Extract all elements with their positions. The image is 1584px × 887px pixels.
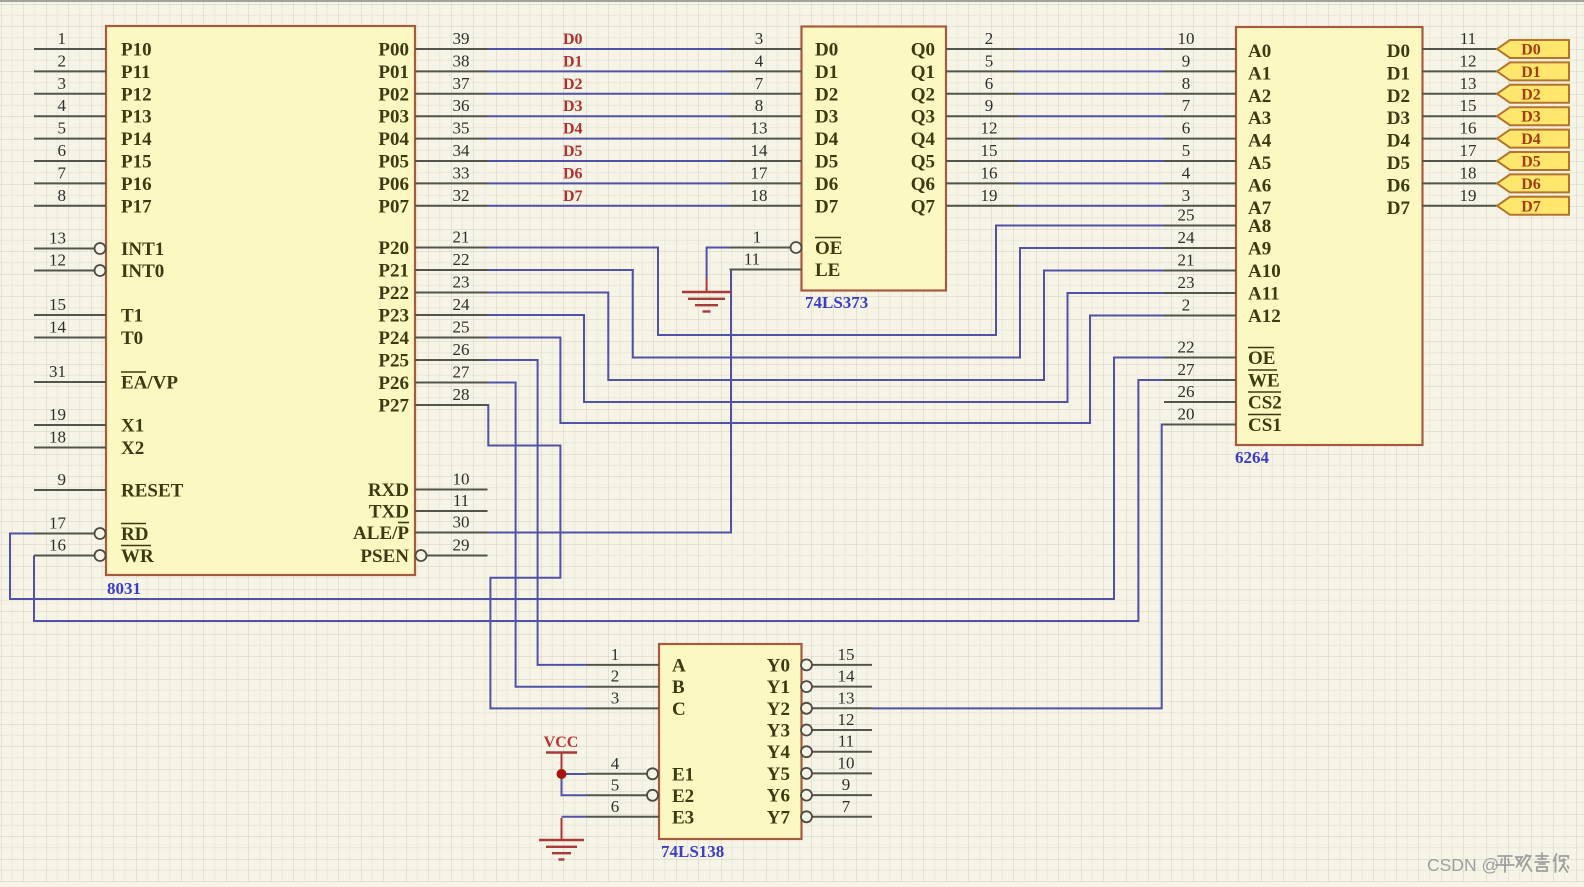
U1 pin 39 (P00) right stub <box>415 29 488 49</box>
svg-text:16: 16 <box>1460 119 1477 138</box>
U4 pin name E2 <box>672 786 694 807</box>
svg-text:8: 8 <box>58 186 67 205</box>
U1 pin name T0 <box>121 328 143 349</box>
U4 pin 14 (Y1) stub <box>801 667 872 693</box>
svg-text:14: 14 <box>49 318 67 337</box>
U3 pin name D2 <box>1387 86 1410 107</box>
wire P27 to 74LS138 C <box>488 405 588 708</box>
U3 pin 22 (OE) stub <box>1164 338 1236 358</box>
wire ALE to 74LS373 LE <box>488 270 732 533</box>
svg-text:22: 22 <box>453 250 470 269</box>
svg-text:RXD: RXD <box>368 480 409 501</box>
svg-text:39: 39 <box>453 29 470 48</box>
svg-text:A10: A10 <box>1248 261 1281 282</box>
wire 74LS373 Q3 to 6264 A3 <box>1018 115 1164 117</box>
svg-text:7: 7 <box>1182 96 1191 115</box>
svg-text:19: 19 <box>981 186 998 205</box>
U1 pin 9 (RESET) left stub <box>34 470 106 490</box>
U1 pin name P04 <box>378 129 409 150</box>
svg-text:P06: P06 <box>378 174 409 195</box>
U2 pin 18 (D7) stub <box>730 186 802 206</box>
U1 pin name P01 <box>378 62 409 83</box>
svg-text:Y4: Y4 <box>767 742 791 763</box>
svg-text:24: 24 <box>1178 228 1196 247</box>
U2 pin 15 (Q5) stub <box>946 141 1018 161</box>
svg-text:25: 25 <box>1178 206 1195 225</box>
svg-text:6264: 6264 <box>1235 448 1270 467</box>
U1 pin name RXD <box>368 480 409 501</box>
svg-text:1: 1 <box>58 29 67 48</box>
U1 pin 6 (P15) left stub <box>34 141 106 161</box>
svg-text:P01: P01 <box>378 62 409 83</box>
U2 pin 2 (Q0) stub <box>946 29 1018 49</box>
wire 74LS373 Q2 to 6264 A2 <box>1018 93 1164 95</box>
svg-text:9: 9 <box>58 470 67 489</box>
U3 pin name CS2 <box>1248 392 1282 414</box>
svg-text:4: 4 <box>1182 163 1191 182</box>
svg-text:A0: A0 <box>1248 41 1271 62</box>
svg-text:12: 12 <box>981 119 998 138</box>
svg-text:Y5: Y5 <box>767 764 790 785</box>
U1 pin 28 (P27) right stub <box>415 385 488 405</box>
svg-text:15: 15 <box>1460 96 1477 115</box>
svg-text:24: 24 <box>453 295 471 314</box>
U3 pin 6 (A4) stub <box>1164 119 1236 139</box>
U1 pin name P24 <box>378 328 409 349</box>
svg-text:30: 30 <box>453 513 470 532</box>
svg-text:P25: P25 <box>378 351 409 372</box>
svg-text:A1: A1 <box>1248 63 1271 84</box>
svg-text:Q4: Q4 <box>911 129 936 150</box>
U3 pin name A2 <box>1248 86 1271 107</box>
svg-text:26: 26 <box>1178 382 1195 401</box>
svg-text:74LS138: 74LS138 <box>661 842 724 861</box>
U4 pin 9 (Y6) stub <box>801 775 872 801</box>
U1 pin 18 (X2) left stub <box>34 428 106 448</box>
svg-text:P14: P14 <box>121 129 152 150</box>
U1 pin 31 (EA/VP) left stub <box>34 362 106 382</box>
svg-text:C: C <box>672 699 686 720</box>
port D6 <box>1497 174 1569 193</box>
wire 74LS138 Y2 to 6264 CS1 <box>872 425 1164 709</box>
wire 74LS373 Q4 to 6264 A4 <box>1018 138 1164 140</box>
svg-text:11: 11 <box>1460 29 1476 48</box>
U4 pin 11 (Y4) stub <box>801 732 872 758</box>
svg-text:D2: D2 <box>563 76 583 93</box>
svg-text:D5: D5 <box>815 152 838 173</box>
svg-text:D1: D1 <box>563 53 583 70</box>
U3 pin 21 (A10) stub <box>1164 251 1236 271</box>
U4 pin name B <box>672 677 685 698</box>
U2 pin 11 (LE) stub <box>730 250 802 270</box>
svg-text:16: 16 <box>49 536 66 555</box>
U2 pin name D4 <box>815 129 839 150</box>
svg-text:TXD: TXD <box>369 502 409 523</box>
U2 pin 14 (D5) stub <box>730 141 802 161</box>
U1 pin 8 (P17) left stub <box>34 186 106 206</box>
U2 pin name D3 <box>815 107 838 128</box>
svg-text:D4: D4 <box>1521 131 1541 148</box>
svg-text:A8: A8 <box>1248 216 1271 237</box>
wire P24 to 6264 A12 <box>488 316 1165 424</box>
svg-text:P15: P15 <box>121 152 152 173</box>
svg-text:2: 2 <box>985 29 994 48</box>
IC U1 8031 body <box>106 26 415 575</box>
svg-text:23: 23 <box>1178 273 1195 292</box>
port D7 <box>1497 197 1569 216</box>
U3 pin name OE <box>1248 348 1275 370</box>
U4 pin name Y5 <box>767 764 790 785</box>
svg-text:34: 34 <box>453 141 471 160</box>
svg-text:D7: D7 <box>563 188 583 205</box>
U2 pin name Q6 <box>911 174 935 195</box>
svg-text:12: 12 <box>1460 51 1477 70</box>
svg-text:Y1: Y1 <box>767 677 790 698</box>
wire P23 to 6264 A11 <box>488 293 1165 402</box>
svg-text:3: 3 <box>611 688 620 707</box>
svg-text:A: A <box>672 655 686 676</box>
U2 pin 19 (Q7) stub <box>946 186 1018 206</box>
svg-text:D4: D4 <box>815 129 839 150</box>
svg-text:27: 27 <box>453 363 471 382</box>
U4 pin name C <box>672 699 686 720</box>
svg-text:Y7: Y7 <box>767 807 791 828</box>
IC U4 74LS138 body <box>659 644 802 839</box>
U2 pin 17 (D6) stub <box>730 163 802 183</box>
wire 74LS373 OE to ground <box>707 248 730 279</box>
U1 pin name P02 <box>378 84 409 105</box>
svg-text:Y0: Y0 <box>767 655 790 676</box>
U4 pin name Y3 <box>767 721 790 742</box>
svg-text:9: 9 <box>985 96 994 115</box>
U3 pin 20 (CS1) stub <box>1164 405 1236 425</box>
U1 pin name P07 <box>378 196 409 217</box>
svg-text:A9: A9 <box>1248 239 1271 260</box>
svg-text:11: 11 <box>453 491 469 510</box>
svg-text:17: 17 <box>49 514 67 533</box>
svg-text:OE: OE <box>1248 348 1275 369</box>
U1 pin 23 (P22) right stub <box>415 273 488 293</box>
svg-text:Q1: Q1 <box>911 62 935 83</box>
svg-text:RD: RD <box>121 524 148 545</box>
svg-text:X1: X1 <box>121 416 144 437</box>
wire 74LS373 Q0 to 6264 A0 <box>1018 48 1164 50</box>
svg-text:2: 2 <box>1182 296 1191 315</box>
U3 pin 4 (A6) stub <box>1164 163 1236 183</box>
svg-text:14: 14 <box>838 667 856 686</box>
wire P22 to 6264 A10 <box>488 271 1165 381</box>
svg-text:6: 6 <box>985 74 994 93</box>
U2 pin name D0 <box>815 40 838 61</box>
U2 pin name D1 <box>815 62 838 83</box>
U1 pin name P27 <box>378 396 409 417</box>
U3 pin 3 (A7) stub <box>1164 186 1236 206</box>
svg-text:D5: D5 <box>1387 153 1410 174</box>
IC U3 6264 designator label <box>1235 448 1270 467</box>
U3 pin name A3 <box>1248 108 1271 129</box>
U1 pin 5 (P14) left stub <box>34 119 106 139</box>
U4 pin 7 (Y7) stub <box>801 797 872 823</box>
U4 pin name Y7 <box>767 807 791 828</box>
svg-text:29: 29 <box>453 536 470 555</box>
svg-text:E3: E3 <box>672 807 694 828</box>
U1 pin name T1 <box>121 306 143 327</box>
svg-text:Y6: Y6 <box>767 786 790 807</box>
U4 pin 6 (E3) stub <box>587 797 659 817</box>
U1 pin name P23 <box>378 306 409 327</box>
U3 pin 15 (D3) stub <box>1422 96 1497 116</box>
U2 pin name Q1 <box>911 62 935 83</box>
U3 pin name D3 <box>1387 108 1410 129</box>
U4 pin 3 (C) stub <box>587 688 659 708</box>
U3 pin 13 (D2) stub <box>1422 74 1497 94</box>
svg-text:11: 11 <box>744 250 760 269</box>
svg-text:5: 5 <box>985 51 994 70</box>
wire RD to 6264 OE <box>10 358 1164 600</box>
U3 pin name A1 <box>1248 63 1271 84</box>
svg-text:D6: D6 <box>815 174 838 195</box>
U3 pin 26 (CS2) stub <box>1164 382 1236 402</box>
U2 pin name OE <box>815 238 842 260</box>
svg-text:15: 15 <box>981 141 998 160</box>
U4 pin 4 (E1) stub <box>587 754 658 780</box>
U2 pin 3 (D0) stub <box>730 29 802 49</box>
svg-text:11: 11 <box>838 732 854 751</box>
svg-text:35: 35 <box>453 119 470 138</box>
svg-text:Y3: Y3 <box>767 721 790 742</box>
U3 pin name CS1 <box>1248 415 1282 437</box>
svg-text:Q3: Q3 <box>911 107 935 128</box>
svg-text:4: 4 <box>611 754 620 773</box>
svg-text:D7: D7 <box>815 196 839 217</box>
svg-text:X2: X2 <box>121 438 144 459</box>
svg-text:D4: D4 <box>1387 131 1411 152</box>
IC U1 8031 designator label <box>107 579 141 598</box>
svg-text:5: 5 <box>58 119 67 138</box>
U1 pin name P20 <box>378 238 409 259</box>
svg-text:5: 5 <box>611 775 620 794</box>
svg-text:T1: T1 <box>121 306 143 327</box>
svg-text:Q6: Q6 <box>911 174 935 195</box>
U1 pin name ALE/P <box>353 523 409 545</box>
U2 pin name D5 <box>815 152 838 173</box>
wire 74LS373 Q5 to 6264 A5 <box>1018 160 1164 162</box>
svg-text:WE: WE <box>1248 371 1280 392</box>
U1 pin name P05 <box>378 152 409 173</box>
svg-text:3: 3 <box>1182 186 1191 205</box>
svg-text:E2: E2 <box>672 786 694 807</box>
svg-text:38: 38 <box>453 51 470 70</box>
svg-text:17: 17 <box>1460 141 1478 160</box>
U4 pin 5 (E2) stub <box>587 775 658 801</box>
U1 pin name PSEN <box>360 546 409 567</box>
U1 pin 21 (P20) right stub <box>415 228 488 248</box>
U1 pin name P16 <box>121 174 152 195</box>
U1 pin name P21 <box>378 261 409 282</box>
U3 pin name D5 <box>1387 153 1410 174</box>
svg-text:20: 20 <box>1178 405 1195 424</box>
U1 pin name RESET <box>121 481 184 502</box>
svg-text:4: 4 <box>755 51 764 70</box>
U1 pin 32 (P07) right stub <box>415 186 488 206</box>
svg-text:19: 19 <box>1460 186 1477 205</box>
svg-text:LE: LE <box>815 260 840 281</box>
svg-text:8: 8 <box>1182 74 1191 93</box>
U3 pin name A7 <box>1248 198 1272 219</box>
svg-text:CSDN @: CSDN @ <box>1427 855 1499 875</box>
svg-text:P17: P17 <box>121 196 152 217</box>
U1 pin 12 (INT0) left stub <box>34 251 106 277</box>
U1 pin name INT1 <box>121 239 164 260</box>
svg-text:D5: D5 <box>563 143 583 160</box>
U4 pin name Y6 <box>767 786 790 807</box>
svg-text:EA/VP: EA/VP <box>121 373 178 394</box>
U2 pin 9 (Q3) stub <box>946 96 1018 116</box>
wire VCC to E1 <box>562 773 588 775</box>
svg-text:P21: P21 <box>378 261 409 282</box>
U4 pin 10 (Y5) stub <box>801 753 872 779</box>
port D2 <box>1497 85 1569 104</box>
svg-text:E1: E1 <box>672 764 694 785</box>
U2 pin name Q2 <box>911 84 935 105</box>
svg-text:D7: D7 <box>1521 198 1541 215</box>
U4 pin name Y0 <box>767 655 790 676</box>
power port VCC <box>544 734 579 779</box>
U2 pin name D6 <box>815 174 838 195</box>
svg-text:P05: P05 <box>378 152 409 173</box>
U3 pin name A12 <box>1248 306 1281 327</box>
svg-text:D0: D0 <box>815 40 838 61</box>
top border of screenshot <box>0 0 1584 2</box>
svg-text:D7: D7 <box>1387 198 1411 219</box>
svg-text:ALE/P: ALE/P <box>353 523 409 544</box>
svg-text:D5: D5 <box>1521 154 1541 171</box>
U2 pin name LE <box>815 260 840 281</box>
U1 pin 7 (P16) left stub <box>34 163 106 183</box>
U2 pin name Q4 <box>911 129 936 150</box>
U3 pin name D1 <box>1387 63 1410 84</box>
svg-text:12: 12 <box>49 251 66 270</box>
svg-text:A6: A6 <box>1248 175 1271 196</box>
wire 74LS373 Q7 to 6264 A7 <box>1018 205 1164 207</box>
wire P05 to 74LS373 D5 (net D5) <box>488 160 730 162</box>
U1 pin name P17 <box>121 196 152 217</box>
U3 pin 25 (A8) stub <box>1164 206 1236 226</box>
U1 pin 3 (P12) left stub <box>34 74 106 94</box>
svg-text:P24: P24 <box>378 328 409 349</box>
U3 pin name A0 <box>1248 41 1271 62</box>
U4 pin name Y2 <box>767 699 790 720</box>
svg-text:10: 10 <box>838 753 855 772</box>
svg-text:P03: P03 <box>378 107 409 128</box>
svg-text:32: 32 <box>453 186 470 205</box>
wire P21 to 6264 A9 <box>488 248 1165 358</box>
svg-text:21: 21 <box>1178 251 1195 270</box>
svg-text:26: 26 <box>453 340 470 359</box>
svg-text:13: 13 <box>751 119 768 138</box>
svg-text:A11: A11 <box>1248 284 1280 305</box>
svg-text:33: 33 <box>453 163 470 182</box>
U1 pin 17 (RD) left stub <box>34 514 106 540</box>
U1 pin name P14 <box>121 129 152 150</box>
svg-text:INT0: INT0 <box>121 261 164 282</box>
wire 74LS373 Q6 to 6264 A6 <box>1018 182 1164 184</box>
svg-text:3: 3 <box>58 74 67 93</box>
U2 pin 5 (Q1) stub <box>946 51 1018 71</box>
svg-text:13: 13 <box>1460 74 1477 93</box>
svg-text:A4: A4 <box>1248 131 1272 152</box>
U1 pin 13 (INT1) left stub <box>34 229 106 255</box>
svg-text:14: 14 <box>751 141 769 160</box>
svg-text:A2: A2 <box>1248 86 1271 107</box>
svg-text:Q5: Q5 <box>911 152 935 173</box>
port D3 <box>1497 107 1569 126</box>
svg-text:P27: P27 <box>378 396 409 417</box>
IC U4 74LS138 designator label <box>661 842 724 861</box>
U2 pin 6 (Q2) stub <box>946 74 1018 94</box>
ground at 74LS138 E3 <box>539 818 584 860</box>
U4 pin 1 (A) stub <box>587 645 659 665</box>
svg-text:6: 6 <box>1182 119 1191 138</box>
svg-text:23: 23 <box>453 273 470 292</box>
svg-text:19: 19 <box>49 405 66 424</box>
U1 pin 2 (P11) left stub <box>34 51 106 71</box>
U4 pin 15 (Y0) stub <box>801 645 872 671</box>
svg-text:15: 15 <box>49 295 66 314</box>
U3 pin 16 (D4) stub <box>1422 119 1497 139</box>
svg-text:P07: P07 <box>378 196 409 217</box>
svg-text:36: 36 <box>453 96 470 115</box>
svg-text:D0: D0 <box>563 31 583 48</box>
U1 pin name RD <box>121 524 148 546</box>
U1 pin 37 (P02) right stub <box>415 74 488 94</box>
U1 pin name P25 <box>378 351 409 372</box>
U2 pin name Q3 <box>911 107 935 128</box>
svg-text:6: 6 <box>58 141 67 160</box>
svg-text:D2: D2 <box>1521 86 1541 103</box>
svg-text:17: 17 <box>751 163 769 182</box>
svg-text:15: 15 <box>838 645 855 664</box>
U1 pin 30 (ALE/P) right stub <box>415 513 488 533</box>
U4 pin name Y4 <box>767 742 791 763</box>
svg-text:18: 18 <box>751 186 768 205</box>
U4 pin name A <box>672 655 686 676</box>
svg-text:74LS373: 74LS373 <box>805 293 868 312</box>
wire P26 to 74LS138 B <box>488 383 588 687</box>
svg-text:D0: D0 <box>1387 41 1410 62</box>
svg-text:10: 10 <box>1178 29 1195 48</box>
U1 pin name X2 <box>121 438 144 459</box>
svg-text:16: 16 <box>981 163 998 182</box>
svg-text:P23: P23 <box>378 306 409 327</box>
U3 pin 9 (A1) stub <box>1164 51 1236 71</box>
svg-text:P02: P02 <box>378 84 409 105</box>
wire E3 to ground <box>562 816 588 818</box>
U1 pin name P11 <box>121 62 151 83</box>
IC U3 6264 body <box>1236 27 1423 445</box>
svg-text:7: 7 <box>58 163 67 182</box>
U2 pin 13 (D4) stub <box>730 119 802 139</box>
U2 pin name D2 <box>815 84 838 105</box>
svg-text:Q2: Q2 <box>911 84 935 105</box>
port D0 <box>1497 40 1569 59</box>
U2 pin 8 (D3) stub <box>730 96 802 116</box>
U2 pin 7 (D2) stub <box>730 74 802 94</box>
U1 pin 27 (P26) right stub <box>415 363 488 383</box>
svg-text:9: 9 <box>1182 51 1191 70</box>
U3 pin name A10 <box>1248 261 1281 282</box>
U3 pin 12 (D1) stub <box>1422 51 1497 71</box>
